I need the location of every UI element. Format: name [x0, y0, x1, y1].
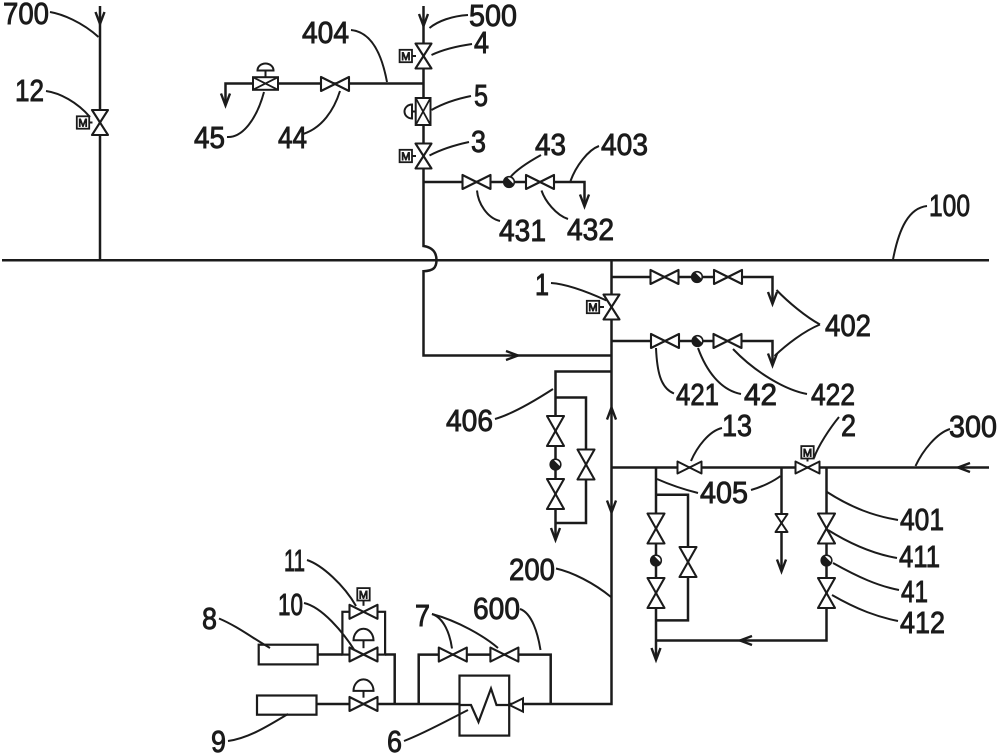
svg-text:403: 403 — [601, 127, 648, 162]
svg-text:13: 13 — [722, 408, 752, 443]
svg-text:9: 9 — [211, 724, 226, 756]
svg-text:8: 8 — [202, 601, 217, 636]
svg-text:100: 100 — [929, 188, 970, 223]
svg-text:600: 600 — [473, 591, 520, 626]
svg-text:45: 45 — [194, 120, 225, 155]
svg-text:412: 412 — [900, 605, 945, 640]
svg-text:42: 42 — [744, 377, 777, 412]
svg-text:402: 402 — [825, 308, 871, 343]
svg-text:11: 11 — [284, 543, 305, 578]
svg-text:10: 10 — [278, 587, 303, 622]
svg-text:200: 200 — [509, 552, 555, 587]
svg-text:7: 7 — [415, 598, 430, 633]
svg-text:421: 421 — [676, 377, 719, 412]
svg-text:12: 12 — [15, 73, 44, 108]
svg-text:44: 44 — [278, 120, 307, 155]
svg-text:43: 43 — [535, 127, 566, 162]
svg-text:422: 422 — [811, 377, 855, 412]
svg-text:406: 406 — [446, 403, 493, 438]
svg-text:300: 300 — [949, 409, 997, 444]
svg-text:3: 3 — [471, 124, 486, 159]
svg-text:2: 2 — [841, 408, 856, 443]
svg-text:405: 405 — [700, 475, 748, 510]
svg-text:700: 700 — [3, 0, 49, 31]
svg-text:431: 431 — [499, 213, 546, 248]
svg-text:5: 5 — [474, 78, 488, 113]
svg-text:6: 6 — [387, 724, 402, 756]
svg-text:41: 41 — [901, 574, 928, 609]
svg-text:1: 1 — [535, 267, 549, 302]
svg-text:401: 401 — [900, 502, 944, 537]
svg-text:432: 432 — [567, 212, 614, 247]
svg-text:4: 4 — [474, 25, 489, 60]
svg-text:404: 404 — [302, 15, 349, 50]
svg-text:411: 411 — [899, 539, 940, 574]
